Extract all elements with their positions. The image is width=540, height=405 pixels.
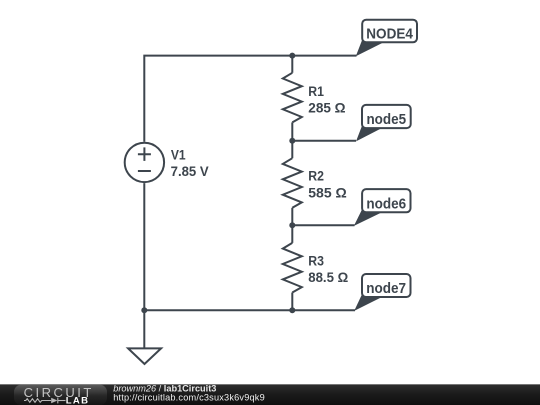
svg-text:R1: R1	[308, 84, 324, 99]
logo squiggle: resistor and diode	[24, 398, 66, 404]
junction dot node6	[289, 222, 295, 228]
svg-text:NODE4: NODE4	[366, 26, 413, 42]
resistor R3	[283, 243, 302, 293]
node node7 flag	[354, 274, 410, 311]
resistor R1	[283, 73, 302, 123]
svg-text:7.85 V: 7.85 V	[171, 164, 209, 179]
svg-text:285 Ω: 285 Ω	[308, 100, 346, 115]
voltage source V1	[125, 143, 164, 182]
wire: stub to node5 flag	[292, 140, 356, 142]
junction dot ground tee	[141, 307, 147, 313]
wire: ground stem	[143, 310, 145, 347]
svg-text:LAB: LAB	[66, 395, 90, 405]
svg-text:R3: R3	[308, 253, 324, 268]
ground	[128, 348, 161, 364]
junction dot top of chain	[289, 53, 295, 59]
wire: left vertical below V1	[143, 183, 145, 310]
svg-text:node7: node7	[366, 281, 406, 297]
svg-text:585 Ω: 585 Ω	[308, 185, 347, 200]
node node6 flag	[354, 189, 411, 226]
svg-text:node5: node5	[366, 112, 406, 128]
resistor R2	[283, 158, 302, 208]
wire: between R2 and R3	[291, 208, 293, 243]
svg-text:node6: node6	[366, 196, 406, 212]
svg-text:V1: V1	[171, 147, 186, 162]
wire: between R1 and R2	[291, 122, 293, 158]
wire: resistor chain top lead	[291, 56, 293, 73]
node NODE4 flag	[356, 20, 417, 57]
junction dot node5	[289, 138, 295, 144]
svg-text:88.5 Ω: 88.5 Ω	[308, 270, 348, 285]
wire: chain bottom lead	[291, 293, 293, 311]
wire: bottom horizontal to node7 flag	[144, 309, 355, 311]
node node5 flag	[356, 105, 411, 141]
wire: stub to node6 flag	[292, 224, 354, 226]
svg-text:R2: R2	[308, 169, 324, 184]
svg-text:http://circuitlab.com/c3sux3k6: http://circuitlab.com/c3sux3k6v9qk9	[113, 392, 265, 402]
wire: top horizontal from V1 branch to NODE4 flag	[144, 56, 356, 142]
junction dot node7 / bottom of chain	[289, 307, 295, 313]
